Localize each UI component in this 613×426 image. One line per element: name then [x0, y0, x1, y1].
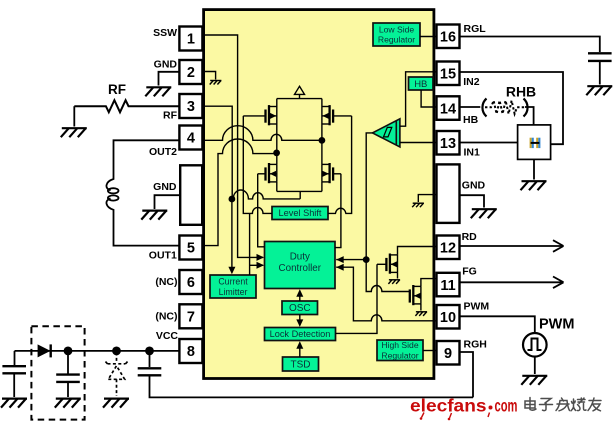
ground (PWM source): [521, 376, 547, 385]
svg-text:com: com: [495, 396, 518, 416]
svg-text:IN2: IN2: [463, 76, 480, 88]
wire pin14 to RHB: [460, 106, 481, 108]
wire pin11 FG output arrow: [460, 281, 563, 283]
wire pin13 IN1 external: [460, 142, 518, 144]
svg-text:IN1: IN1: [464, 147, 481, 159]
IC body (yellow block): [204, 10, 434, 379]
wire H sensor to ground: [533, 159, 535, 179]
wire HB block to pin14: [421, 90, 436, 107]
pin 14 box: [437, 96, 460, 120]
svg-text:(NC): (NC): [155, 276, 177, 288]
wire RHB to H sensor: [525, 107, 534, 125]
svg-text:RD: RD: [462, 231, 478, 243]
svg-text:Duty: Duty: [290, 252, 310, 263]
pin 5 box: [179, 236, 202, 260]
wire Q4 source to sense rail: [321, 182, 323, 192]
wire Q4 gate down to Duty: [335, 174, 341, 248]
pin 3 box: [179, 94, 202, 118]
block OSC: [282, 301, 318, 315]
ground (RF resistor): [61, 128, 87, 137]
wire pin9 RGH internal: [423, 350, 437, 352]
wire+arrow TSD to Lock Detection: [299, 343, 301, 358]
wire Q5 source to ground: [397, 272, 399, 278]
wire right node (Q2 source to Q4 drain): [321, 124, 323, 164]
svg-text:12: 12: [440, 241, 456, 257]
transistor Q3 (bridge lower-left): [258, 163, 277, 183]
wire Lock Detection to Q5 gate: [336, 264, 378, 333]
pin 16 box: [437, 25, 460, 49]
node zener dot: [112, 347, 121, 356]
node OUT1 junction dot: [273, 150, 280, 157]
diode D1: [38, 344, 51, 357]
wire comparator out to FG gate (hop): [366, 260, 409, 292]
transistor Q4 (bridge lower-right): [322, 163, 341, 183]
wire Level Shift tap down to Current Limitter: [249, 213, 251, 275]
wire low-side source rail: [277, 190, 322, 192]
wire pin12 RD output arrow: [460, 245, 563, 247]
pin 15 box: [437, 62, 460, 86]
arrow into Current Limitter: [228, 267, 235, 275]
wire pin9 RGH external: [460, 352, 474, 397]
capacitor C2: [56, 375, 80, 382]
wire left node (Q1 source to Q3 drain): [276, 124, 278, 164]
resistor RHB (optional, dashed): [482, 99, 486, 117]
svg-text:15: 15: [440, 67, 456, 83]
svg-text:SSW: SSW: [153, 27, 177, 39]
dashed battery box: [31, 326, 84, 419]
ground (internal, pin2): [210, 81, 222, 85]
node RF sense dot: [229, 196, 236, 203]
block Lock Detection: [265, 328, 336, 341]
wire Level Shift left to Q1 gate: [243, 116, 272, 213]
svg-text:VCC: VCC: [156, 330, 179, 342]
svg-text:11: 11: [440, 278, 455, 294]
node comparator output dot: [363, 256, 370, 263]
svg-text:OUT2: OUT2: [149, 146, 177, 158]
pin 6 box: [179, 270, 202, 294]
wire pin16 RGL external: [460, 37, 600, 53]
wire Q3 gate down to Duty: [258, 174, 265, 247]
svg-text:Limitter: Limitter: [219, 287, 248, 297]
top rail wire: [277, 98, 322, 100]
pin 1 box: [179, 27, 202, 51]
svg-text:3: 3: [187, 99, 195, 115]
svg-text:Regulator: Regulator: [378, 35, 415, 45]
svg-text:14: 14: [440, 101, 456, 117]
pin 4 box: [179, 126, 202, 150]
ground (C4): [586, 86, 612, 95]
wire dot to C3: [149, 351, 151, 367]
watermark chinese 电子发烧友: [525, 398, 536, 411]
wire C1 to ground: [13, 373, 15, 397]
wire pin5 OUT1 internal (hops): [205, 139, 277, 246]
ground (internal, right tab): [412, 203, 424, 207]
PWM source symbol: [523, 333, 547, 357]
svg-text:PWM: PWM: [539, 317, 574, 333]
svg-text:13: 13: [440, 136, 456, 152]
wire RF sense to current limiter (arrow): [231, 199, 233, 273]
wire C3 to RGH return: [150, 375, 474, 397]
wire pin2 external to ground: [159, 72, 180, 86]
svg-text:9: 9: [444, 346, 452, 362]
left GND tab: [180, 165, 202, 225]
wire pin3 RF internal: [205, 106, 232, 199]
svg-text:7: 7: [187, 310, 195, 326]
wire pin1 SSW internal: [205, 35, 263, 257]
ground (C2): [55, 399, 81, 408]
svg-text:RF: RF: [163, 109, 178, 121]
wire tap to Duty arrow: [250, 264, 264, 266]
node VCC cap C3 dot: [145, 347, 154, 356]
arrow into Duty Controller (SSW): [257, 254, 265, 261]
block Current Limitter: [210, 275, 256, 298]
ground (left GND tab): [141, 211, 167, 220]
block High Side Regulator: [377, 340, 423, 361]
svg-text:GND: GND: [462, 180, 486, 192]
svg-text:2: 2: [187, 65, 195, 81]
pin 11 box: [437, 273, 460, 297]
svg-text:Controller: Controller: [279, 263, 322, 274]
wire RF sense to bridge (hops): [232, 190, 300, 199]
svg-text:6: 6: [187, 275, 195, 291]
ground (internal, Q5 source): [388, 280, 400, 284]
wire pin10 PWM internal (hops): [336, 267, 436, 321]
wire Q6 drain to pin11: [421, 279, 437, 287]
wire left cap C1 to rail: [14, 351, 16, 365]
pin 9 box: [437, 341, 460, 365]
wire Q3 source to sense rail: [276, 182, 278, 192]
wire pin10 PWM external: [460, 316, 535, 332]
wire pin15 IN2 internal: [400, 72, 437, 126]
arrow into Duty right (comparator): [336, 256, 344, 263]
svg-text:RHB: RHB: [506, 84, 536, 100]
svg-text:Level Shift: Level Shift: [279, 208, 322, 218]
wire pin2 internal to gnd: [205, 72, 216, 80]
wire RF resistor to ground: [73, 106, 75, 126]
VM supply symbol (open triangle): [295, 86, 305, 98]
wire dot to Duty arrow: [336, 259, 366, 261]
capacitor C1: [2, 366, 26, 373]
svg-text:HB: HB: [463, 114, 479, 126]
node OUT2 junction dot: [319, 137, 326, 144]
svg-text:10: 10: [440, 310, 456, 326]
svg-text:1: 1: [187, 32, 195, 48]
svg-text:High Side: High Side: [381, 340, 418, 350]
svg-text:RF: RF: [108, 82, 126, 97]
wire C4 to ground: [599, 61, 601, 85]
wire pin15 IN2 external: [460, 72, 564, 144]
pin 13 box: [437, 131, 460, 155]
block TSD: [283, 357, 319, 371]
svg-text:GND: GND: [153, 181, 177, 193]
hall sensor H letter: [530, 138, 541, 148]
wire+arrow OSC to Duty: [299, 291, 301, 302]
svg-text:OSC: OSC: [289, 303, 311, 314]
svg-text:Lock Detection: Lock Detection: [270, 329, 331, 339]
svg-text:(NC): (NC): [155, 311, 177, 323]
node VCC dot (diode cathode): [64, 347, 73, 356]
svg-text:8: 8: [187, 344, 195, 360]
wire Q5 drain to pin12: [398, 247, 437, 255]
svg-text:FG: FG: [462, 266, 477, 278]
block Low Side Regulator: [373, 23, 420, 46]
ground (H sensor): [521, 181, 547, 190]
svg-text:4: 4: [187, 131, 195, 147]
transistor Q1 (bridge upper-left): [243, 105, 276, 125]
block Duty Controller: [265, 242, 336, 289]
ground (C1): [1, 399, 27, 408]
wire pin16 RGL internal: [420, 36, 437, 38]
wire+arrow OSC to Lock Detection: [299, 315, 301, 326]
ground (zener): [103, 399, 129, 408]
wire Level Shift right to Q2 gate: [328, 116, 352, 213]
capacitor C3: [138, 368, 162, 375]
wire Q6 source to ground: [420, 304, 422, 311]
svg-text:Low Side: Low Side: [379, 24, 415, 34]
svg-text:HB: HB: [414, 79, 427, 90]
svg-text:OUT1: OUT1: [149, 249, 177, 261]
svg-text:RGL: RGL: [464, 23, 487, 35]
pin 12 box: [437, 236, 460, 260]
svg-text:Regulator: Regulator: [381, 350, 418, 360]
wire RF sense step: [299, 191, 301, 199]
transistor Q6 (FG driver): [409, 285, 421, 305]
pin 7 box: [179, 304, 202, 328]
resistor RF: [74, 100, 180, 112]
ground (internal, Q6 source): [415, 312, 427, 316]
wire left GND tab external: [155, 195, 181, 209]
wire dot to C2: [67, 351, 69, 374]
pin 2 box: [179, 60, 202, 84]
pin 8 box: [179, 339, 202, 363]
inductor L1 (motor coil): [106, 140, 180, 245]
zener diode ZD1 (dashed): [104, 353, 129, 397]
svg-text:TSD: TSD: [291, 360, 311, 371]
block HB: [409, 77, 434, 90]
wire PWM source to ground: [534, 357, 536, 374]
transistor Q5 (RD driver): [377, 254, 398, 274]
wire pin13 IN1 internal: [400, 142, 437, 144]
wire UR drain to rail: [321, 99, 323, 107]
svg-text:Current: Current: [218, 276, 248, 286]
wire C2 to ground: [67, 382, 69, 397]
right GND tab: [437, 164, 460, 223]
VCC rail wire: [15, 350, 180, 352]
ground (right GND tab): [471, 209, 497, 218]
svg-text:GND: GND: [154, 59, 178, 71]
wire comparator output to Duty: [366, 133, 372, 258]
transistor Q2 (bridge upper-right): [322, 105, 352, 125]
svg-text:5: 5: [187, 241, 195, 257]
capacitor C4 (RGL): [588, 53, 612, 61]
wire pin4 OUT2 internal (hops): [205, 126, 322, 141]
hall sensor H box: [518, 125, 551, 159]
comparator U2 (hall amp, points left): [373, 119, 400, 147]
block Level Shift: [272, 207, 328, 220]
wire UL drain to rail: [276, 99, 278, 107]
pin 10 box: [437, 305, 460, 329]
svg-text:16: 16: [440, 30, 456, 46]
wire right GND tab internal: [418, 195, 436, 202]
svg-text:RGH: RGH: [464, 338, 487, 350]
ground (pin 2 external): [145, 87, 171, 96]
wire right GND tab external: [460, 195, 485, 207]
svg-text:PWM: PWM: [464, 300, 490, 312]
svg-text:elecfans: elecfans: [410, 396, 487, 416]
